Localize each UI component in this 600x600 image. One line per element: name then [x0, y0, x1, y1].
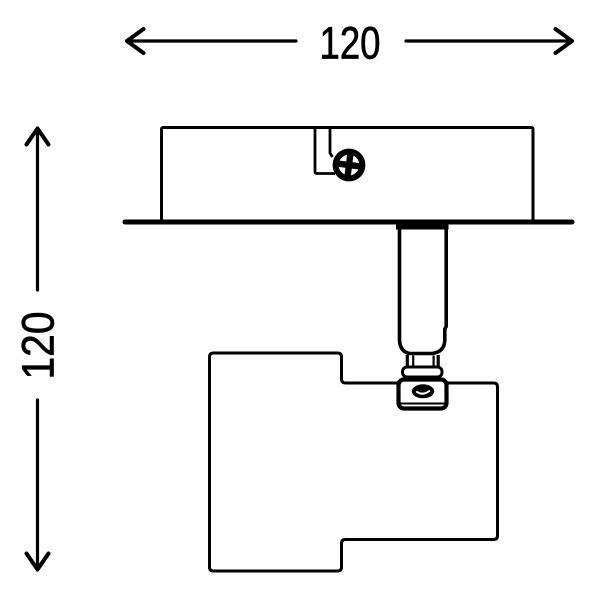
svg-text:120: 120: [320, 18, 381, 69]
canopy box: [162, 128, 534, 222]
vertical dimension line (height 120): [27, 128, 49, 570]
svg-text:120: 120: [13, 312, 64, 380]
stem collar bar: [396, 223, 449, 230]
mounting screw: [336, 152, 363, 179]
horizontal dimension line (width 120): [127, 29, 572, 53]
swivel neck fork: [407, 355, 438, 368]
spot head body: [210, 353, 498, 571]
bracket knob: [412, 384, 434, 398]
swivel bracket: [399, 380, 447, 409]
ceiling plate: [125, 220, 572, 225]
bracket seam line: [400, 403, 447, 405]
keyhole slot: [315, 129, 335, 174]
swivel collar pill: [403, 367, 443, 377]
stem body: [400, 229, 447, 354]
